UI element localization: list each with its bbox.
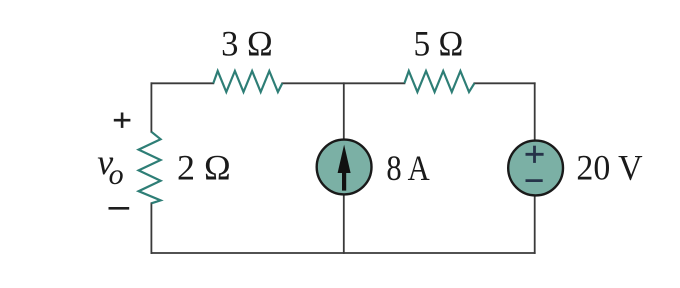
wire middle upper xyxy=(343,83,345,140)
wire middle lower xyxy=(343,194,345,253)
svg-text:2 Ω: 2 Ω xyxy=(177,147,231,187)
wire right upper xyxy=(534,83,536,141)
wire right lower xyxy=(534,195,536,253)
wire left lower xyxy=(150,203,152,253)
wire bottom xyxy=(151,252,534,254)
resistor 5ohm zigzag xyxy=(404,71,474,92)
svg-text:o: o xyxy=(109,158,124,191)
current source I1 circle xyxy=(317,140,372,195)
wire top-left segment xyxy=(151,82,213,84)
resistor 3ohm zigzag xyxy=(213,71,282,92)
voltage source V1 circle xyxy=(508,141,563,196)
resistor 2ohm zigzag (vertical) xyxy=(139,132,161,204)
plus sign (vo polarity) xyxy=(114,113,131,128)
svg-text:8 A: 8 A xyxy=(386,148,429,188)
svg-text:20 V: 20 V xyxy=(576,147,642,187)
current source arrow xyxy=(342,166,346,191)
wire top-middle segment xyxy=(282,82,404,84)
wire top-right segment xyxy=(474,82,534,84)
svg-text:3 Ω: 3 Ω xyxy=(221,23,273,63)
wire left upper xyxy=(150,83,152,132)
voltage source plus xyxy=(526,146,544,163)
minus sign (vo polarity) xyxy=(109,207,130,210)
voltage source minus xyxy=(526,179,543,182)
svg-text:5 Ω: 5 Ω xyxy=(414,23,464,63)
